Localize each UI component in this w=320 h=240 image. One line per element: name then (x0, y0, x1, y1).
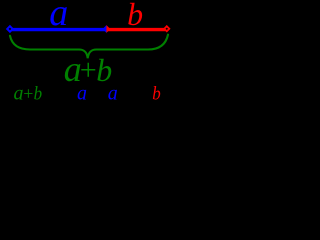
underbrace (green) (10, 35, 168, 59)
svg-text:+: + (22, 83, 34, 103)
svg-text:b: b (152, 83, 161, 104)
svg-text:a: a (108, 82, 118, 104)
svg-text:b: b (34, 83, 43, 104)
wire segment b (red line) (107, 28, 166, 31)
svg-text:b: b (127, 0, 143, 32)
wire segment a (blue line) (11, 28, 107, 31)
node right endpoint (open red diamond) (164, 26, 169, 31)
background (0, 0, 180, 104)
node junction (bicolor diamond) (103, 25, 107, 33)
node left endpoint (open blue diamond) (7, 26, 12, 31)
svg-text:a: a (77, 82, 87, 104)
